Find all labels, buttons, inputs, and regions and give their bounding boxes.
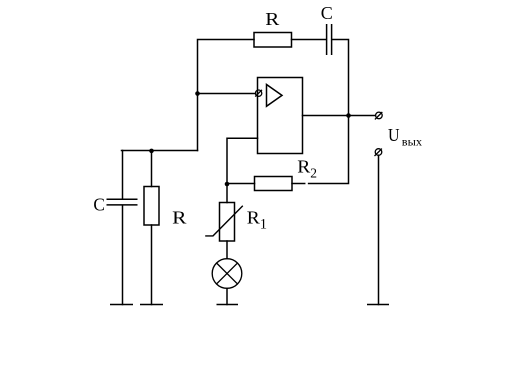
svg-text:C: C — [93, 195, 105, 215]
svg-text:C: C — [321, 3, 333, 23]
svg-text:R: R — [172, 207, 186, 227]
svg-text:R: R — [297, 157, 310, 177]
svg-text:2: 2 — [310, 165, 317, 180]
svg-text:R: R — [265, 9, 279, 29]
svg-text:R: R — [247, 207, 260, 227]
svg-text:1: 1 — [260, 216, 267, 232]
svg-text:вых: вых — [402, 134, 422, 148]
svg-text:U: U — [388, 125, 400, 145]
